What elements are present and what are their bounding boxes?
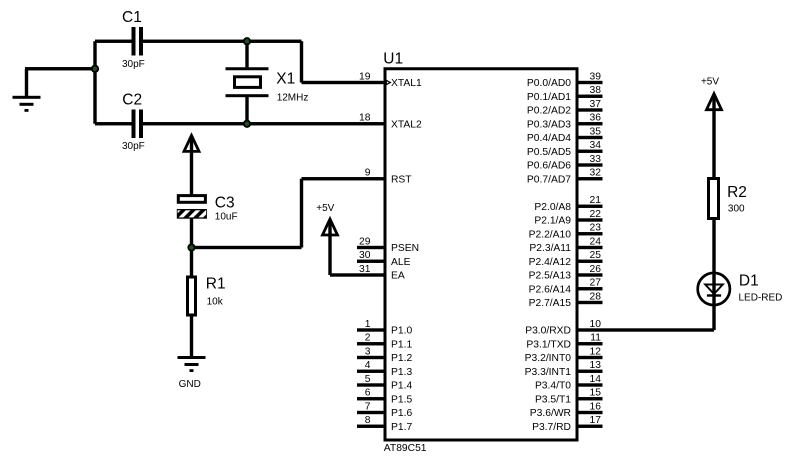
svg-text:P3.3/INT1: P3.3/INT1	[525, 367, 572, 378]
svg-text:300: 300	[728, 204, 745, 215]
svg-text:P3.7/RD: P3.7/RD	[532, 422, 571, 433]
svg-text:P2.0/A8: P2.0/A8	[534, 202, 571, 213]
svg-text:9: 9	[365, 168, 371, 179]
svg-text:27: 27	[590, 278, 602, 289]
svg-text:23: 23	[590, 223, 602, 234]
svg-text:30: 30	[359, 250, 371, 261]
svg-text:P0.7/AD7: P0.7/AD7	[527, 174, 571, 185]
svg-text:PSEN: PSEN	[391, 243, 419, 254]
svg-text:7: 7	[365, 401, 371, 412]
svg-text:RST: RST	[391, 174, 412, 185]
svg-text:25: 25	[590, 250, 602, 261]
svg-text:P2.2/A10: P2.2/A10	[529, 229, 572, 240]
svg-text:P1.0: P1.0	[391, 326, 412, 337]
svg-text:P2.5/A13: P2.5/A13	[529, 271, 572, 282]
svg-text:P1.6: P1.6	[391, 408, 412, 419]
svg-text:P0.2/AD2: P0.2/AD2	[527, 106, 571, 117]
svg-text:AT89C51: AT89C51	[384, 443, 427, 454]
svg-text:8: 8	[365, 415, 371, 426]
svg-text:32: 32	[590, 168, 602, 179]
svg-text:P1.1: P1.1	[391, 339, 412, 350]
svg-text:14: 14	[590, 374, 602, 385]
svg-text:38: 38	[590, 85, 602, 96]
svg-text:P3.6/WR: P3.6/WR	[530, 408, 571, 419]
svg-text:13: 13	[590, 360, 602, 371]
svg-text:C3: C3	[215, 195, 235, 212]
svg-text:+5V: +5V	[316, 203, 334, 214]
svg-text:P3.1/TXD: P3.1/TXD	[526, 339, 571, 350]
svg-text:P1.2: P1.2	[391, 353, 412, 364]
svg-text:P0.5/AD5: P0.5/AD5	[527, 147, 571, 158]
svg-text:17: 17	[590, 415, 602, 426]
svg-text:1: 1	[365, 319, 371, 330]
svg-text:12MHz: 12MHz	[277, 92, 309, 103]
svg-text:P0.0/AD0: P0.0/AD0	[527, 78, 571, 89]
svg-text:39: 39	[590, 71, 602, 82]
svg-text:10: 10	[590, 319, 602, 330]
svg-text:P2.1/A9: P2.1/A9	[534, 216, 571, 227]
svg-text:22: 22	[590, 209, 602, 220]
svg-text:6: 6	[365, 388, 371, 399]
svg-text:31: 31	[359, 264, 371, 275]
svg-text:3: 3	[365, 346, 371, 357]
svg-text:P2.6/A14: P2.6/A14	[529, 284, 572, 295]
svg-text:P3.5/T1: P3.5/T1	[535, 394, 571, 405]
svg-text:U1: U1	[383, 51, 403, 68]
svg-text:X1: X1	[276, 70, 295, 87]
svg-text:21: 21	[590, 195, 602, 206]
svg-text:5: 5	[365, 374, 371, 385]
svg-text:P1.7: P1.7	[391, 422, 412, 433]
svg-text:16: 16	[590, 401, 602, 412]
svg-text:19: 19	[359, 71, 371, 82]
svg-text:LED-RED: LED-RED	[739, 292, 783, 303]
svg-text:2: 2	[365, 333, 371, 344]
svg-text:GND: GND	[179, 379, 201, 390]
svg-text:30pF: 30pF	[122, 141, 145, 152]
svg-text:EA: EA	[391, 271, 405, 282]
svg-text:P2.3/A11: P2.3/A11	[529, 243, 571, 254]
svg-text:33: 33	[590, 154, 602, 165]
svg-text:10uF: 10uF	[215, 212, 238, 223]
svg-text:ALE: ALE	[391, 257, 411, 268]
svg-text:4: 4	[365, 360, 371, 371]
svg-text:37: 37	[590, 99, 602, 110]
svg-text:R1: R1	[206, 276, 226, 293]
svg-text:XTAL2: XTAL2	[391, 119, 422, 130]
svg-text:35: 35	[590, 126, 602, 137]
svg-text:26: 26	[590, 264, 602, 275]
svg-text:P2.7/A15: P2.7/A15	[529, 298, 572, 309]
svg-text:XTAL1: XTAL1	[391, 78, 422, 89]
svg-text:P1.4: P1.4	[391, 381, 412, 392]
svg-text:34: 34	[590, 140, 602, 151]
svg-text:+5V: +5V	[701, 77, 719, 88]
svg-text:P3.4/T0: P3.4/T0	[535, 381, 571, 392]
svg-text:P1.5: P1.5	[391, 394, 412, 405]
svg-text:24: 24	[590, 236, 602, 247]
svg-text:P2.4/A12: P2.4/A12	[529, 257, 572, 268]
svg-text:R2: R2	[727, 184, 747, 201]
svg-text:P3.2/INT0: P3.2/INT0	[525, 353, 572, 364]
svg-text:30pF: 30pF	[122, 59, 145, 70]
svg-text:P0.6/AD6: P0.6/AD6	[527, 161, 571, 172]
svg-text:P3.0/RXD: P3.0/RXD	[525, 326, 571, 337]
svg-text:18: 18	[359, 113, 371, 124]
svg-text:D1: D1	[739, 273, 759, 290]
svg-text:29: 29	[359, 236, 371, 247]
svg-text:12: 12	[590, 346, 602, 357]
svg-text:10k: 10k	[207, 296, 224, 307]
svg-text:P0.3/AD3: P0.3/AD3	[527, 119, 571, 130]
svg-text:P0.1/AD1: P0.1/AD1	[527, 92, 571, 103]
svg-text:15: 15	[590, 388, 602, 399]
svg-text:P1.3: P1.3	[391, 367, 412, 378]
svg-text:C1: C1	[122, 9, 142, 26]
svg-text:11: 11	[590, 333, 601, 344]
svg-text:36: 36	[590, 113, 602, 124]
svg-text:28: 28	[590, 291, 602, 302]
svg-text:C2: C2	[122, 92, 142, 109]
svg-text:P0.4/AD4: P0.4/AD4	[527, 133, 571, 144]
